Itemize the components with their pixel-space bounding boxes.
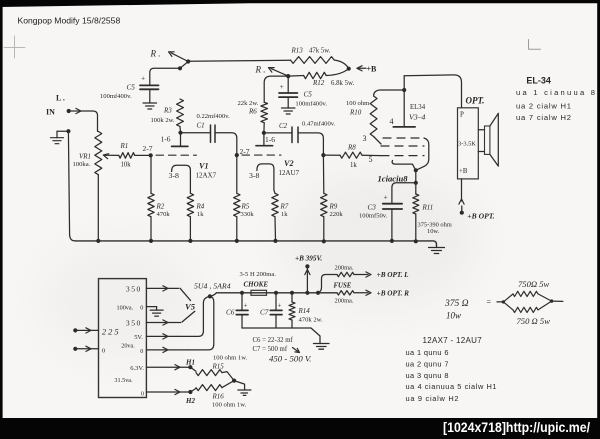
svg-text:EL-34: EL-34 bbox=[526, 76, 551, 86]
svg-text:C2: C2 bbox=[279, 122, 288, 130]
svg-text:3-8: 3-8 bbox=[169, 171, 179, 180]
svg-text:450 - 500 V.: 450 - 500 V. bbox=[269, 354, 312, 364]
svg-text:R10: R10 bbox=[349, 109, 362, 117]
svg-text:P: P bbox=[460, 111, 464, 119]
svg-text:FUSE: FUSE bbox=[334, 282, 352, 289]
svg-text:1k: 1k bbox=[197, 211, 204, 218]
svg-text:CHOKE: CHOKE bbox=[244, 281, 269, 289]
svg-text:6.3V.: 6.3V. bbox=[130, 365, 144, 372]
svg-text:ua 4 cianuua 5 cialw H1: ua 4 cianuua 5 cialw H1 bbox=[406, 382, 497, 391]
svg-text:R15: R15 bbox=[212, 363, 225, 371]
svg-text:C3: C3 bbox=[368, 204, 377, 212]
svg-text:0: 0 bbox=[140, 348, 143, 355]
svg-text:220k: 220k bbox=[330, 211, 344, 218]
svg-text:750Ω 5w: 750Ω 5w bbox=[518, 279, 550, 289]
svg-text:100mf400v.: 100mf400v. bbox=[295, 101, 327, 108]
svg-text:R16: R16 bbox=[212, 392, 225, 400]
svg-text:375 Ω: 375 Ω bbox=[444, 299, 469, 309]
svg-text:C7 = 500 mf: C7 = 500 mf bbox=[253, 346, 288, 353]
svg-text:+B OPT. L: +B OPT. L bbox=[377, 271, 410, 279]
svg-text:750 Ω 5w: 750 Ω 5w bbox=[517, 316, 551, 326]
svg-text:L .: L . bbox=[56, 94, 65, 103]
svg-text:12AU7: 12AU7 bbox=[279, 169, 300, 177]
svg-text:47k 5w.: 47k 5w. bbox=[309, 48, 331, 55]
svg-text:0: 0 bbox=[140, 304, 143, 311]
svg-text:+: + bbox=[244, 302, 248, 310]
svg-text:100k 2w.: 100k 2w. bbox=[151, 117, 175, 124]
svg-text:3: 3 bbox=[363, 134, 367, 143]
svg-text:ua 2 cialw H1: ua 2 cialw H1 bbox=[516, 101, 571, 110]
svg-text:5: 5 bbox=[369, 155, 373, 164]
svg-text:100 ohm: 100 ohm bbox=[346, 100, 370, 107]
svg-text:C6: C6 bbox=[226, 309, 235, 317]
svg-text:VR1: VR1 bbox=[79, 153, 91, 161]
svg-text:200ma.: 200ma. bbox=[335, 298, 354, 305]
svg-text:12AX7: 12AX7 bbox=[196, 171, 217, 179]
svg-text:10w: 10w bbox=[446, 311, 461, 321]
svg-text:ua 9 cialw H2: ua 9 cialw H2 bbox=[406, 394, 459, 403]
svg-text:100 ohm 1w.: 100 ohm 1w. bbox=[212, 402, 247, 409]
svg-text:=: = bbox=[487, 298, 492, 307]
svg-text:ua 2 qunu 7: ua 2 qunu 7 bbox=[406, 359, 449, 368]
svg-text:+B: +B bbox=[367, 65, 378, 74]
svg-text:1k: 1k bbox=[281, 211, 288, 218]
svg-text:[1024x718]http://upic.me/: [1024x718]http://upic.me/ bbox=[443, 419, 590, 435]
svg-text:H1: H1 bbox=[185, 359, 195, 367]
svg-text:225: 225 bbox=[102, 327, 121, 337]
svg-text:350: 350 bbox=[126, 285, 142, 294]
svg-text:R4: R4 bbox=[196, 203, 205, 211]
svg-text:10k: 10k bbox=[121, 162, 132, 169]
svg-text:OPT.: OPT. bbox=[466, 96, 485, 106]
svg-text:C1: C1 bbox=[197, 121, 205, 129]
svg-text:+B OPT.: +B OPT. bbox=[467, 211, 494, 220]
svg-text:+B OPT. R: +B OPT. R bbox=[377, 289, 410, 297]
svg-text:+: + bbox=[384, 193, 388, 202]
svg-text:R6: R6 bbox=[248, 108, 257, 116]
svg-text:100va.: 100va. bbox=[117, 304, 134, 311]
svg-text:IN: IN bbox=[46, 108, 55, 117]
svg-text:ua 3 qunu 8: ua 3 qunu 8 bbox=[406, 371, 449, 380]
svg-text:470k 2w.: 470k 2w. bbox=[299, 317, 323, 324]
svg-text:ua 1 qunu 6: ua 1 qunu 6 bbox=[406, 348, 449, 357]
svg-text:1k: 1k bbox=[350, 162, 357, 169]
svg-text:100 ohm 1w.: 100 ohm 1w. bbox=[213, 355, 248, 362]
svg-text:2-7: 2-7 bbox=[143, 144, 153, 153]
svg-text:R9: R9 bbox=[329, 203, 338, 211]
svg-text:5U4 , 5AR4: 5U4 , 5AR4 bbox=[194, 282, 231, 291]
svg-text:R8: R8 bbox=[347, 144, 356, 152]
svg-text:EL34: EL34 bbox=[410, 104, 426, 111]
svg-text:R1: R1 bbox=[120, 142, 129, 150]
svg-text:22k 2w.: 22k 2w. bbox=[238, 100, 259, 107]
svg-text:C6 = 22-32 mf: C6 = 22-32 mf bbox=[253, 337, 294, 344]
svg-text:+: + bbox=[141, 74, 145, 83]
svg-text:R2: R2 bbox=[156, 203, 165, 211]
svg-text:R12: R12 bbox=[312, 79, 325, 87]
svg-text:100ka.: 100ka. bbox=[73, 161, 91, 168]
svg-text:V3–4: V3–4 bbox=[409, 113, 426, 122]
svg-text:470k: 470k bbox=[157, 211, 171, 218]
svg-text:C7: C7 bbox=[260, 309, 269, 317]
svg-text:R7: R7 bbox=[280, 203, 289, 211]
svg-text:20va.: 20va. bbox=[121, 343, 135, 350]
svg-text:4: 4 bbox=[390, 117, 394, 126]
svg-text:R .: R . bbox=[255, 65, 266, 75]
svg-text:0: 0 bbox=[141, 390, 144, 397]
svg-text:31.5va.: 31.5va. bbox=[114, 377, 133, 384]
svg-text:R .: R . bbox=[150, 49, 161, 59]
svg-text:1-6: 1-6 bbox=[161, 135, 171, 144]
svg-text:V2: V2 bbox=[284, 159, 294, 168]
svg-text:+B 395V.: +B 395V. bbox=[295, 255, 322, 263]
svg-text:R14: R14 bbox=[298, 307, 311, 315]
svg-text:350: 350 bbox=[126, 318, 142, 327]
svg-text:+: + bbox=[278, 302, 282, 310]
svg-text:R13: R13 bbox=[291, 47, 304, 55]
svg-text:ua 7 cialw H2: ua 7 cialw H2 bbox=[516, 113, 571, 122]
svg-text:6.8k 5w.: 6.8k 5w. bbox=[331, 80, 354, 87]
svg-text:330k: 330k bbox=[241, 211, 255, 218]
svg-text:2-7: 2-7 bbox=[240, 147, 250, 156]
svg-text:1-6: 1-6 bbox=[265, 135, 275, 144]
svg-text:3-5 H 200ma.: 3-5 H 200ma. bbox=[240, 271, 277, 278]
svg-text:5V.: 5V. bbox=[134, 334, 143, 341]
svg-text:1ciaciu8: 1ciaciu8 bbox=[378, 174, 409, 184]
svg-text:100mf50v.: 100mf50v. bbox=[359, 213, 388, 220]
svg-text:+B: +B bbox=[459, 168, 468, 175]
svg-text:R11: R11 bbox=[422, 204, 434, 212]
svg-text:3-8: 3-8 bbox=[249, 171, 259, 180]
svg-text:12AX7 - 12AU7: 12AX7 - 12AU7 bbox=[423, 336, 483, 345]
svg-text:C5: C5 bbox=[304, 91, 313, 99]
svg-text:200ma.: 200ma. bbox=[335, 264, 354, 271]
svg-text:H2: H2 bbox=[185, 397, 195, 405]
svg-text:V5: V5 bbox=[185, 302, 196, 312]
svg-text:0.47mf400v.: 0.47mf400v. bbox=[302, 121, 336, 128]
svg-text:0.22mf400v.: 0.22mf400v. bbox=[197, 113, 231, 120]
svg-text:+: + bbox=[280, 82, 284, 91]
svg-text:V1: V1 bbox=[199, 162, 209, 171]
svg-text:3-3.5K: 3-3.5K bbox=[458, 141, 476, 148]
svg-text:Kongpop Modify 15/8/2558: Kongpop Modify 15/8/2558 bbox=[18, 16, 121, 26]
svg-text:C5: C5 bbox=[127, 84, 136, 92]
svg-text:R5: R5 bbox=[241, 203, 250, 211]
svg-text:10w.: 10w. bbox=[427, 228, 440, 235]
svg-text:100mf400v.: 100mf400v. bbox=[100, 93, 132, 100]
svg-text:R3: R3 bbox=[163, 107, 172, 115]
